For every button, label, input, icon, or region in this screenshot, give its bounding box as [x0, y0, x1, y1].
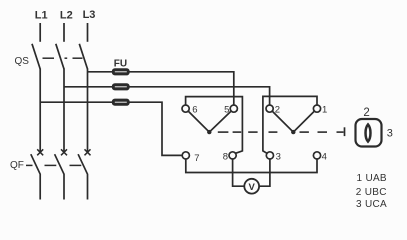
- svg-text:8: 8: [223, 151, 228, 162]
- terminal 7: [182, 152, 189, 159]
- breaker QF pole 2 contact cross: [61, 149, 67, 155]
- selector contact arm left (6-5): [189, 112, 231, 133]
- svg-text:3 UCA: 3 UCA: [356, 199, 387, 210]
- switch QS mechanical link dash 3: [73, 57, 83, 59]
- svg-text:5: 5: [224, 104, 229, 115]
- wire pole 2 vertical: [63, 69, 65, 153]
- wire 8 to voltmeter: [233, 159, 245, 186]
- mechanical link dashed line dash 2: [233, 131, 242, 133]
- terminal 2: [266, 105, 273, 112]
- wire fuse line 2 (from L2): [64, 87, 270, 105]
- svg-text:6: 6: [192, 104, 197, 115]
- switch QS pole 1 blade: [32, 44, 40, 69]
- wire 3 to voltmeter: [260, 159, 270, 186]
- breaker QF link dash 1: [26, 164, 33, 166]
- selector contact arm right (2-1): [273, 112, 314, 133]
- svg-text:3: 3: [387, 128, 393, 140]
- svg-text:L1: L1: [35, 10, 48, 22]
- terminal 8: [229, 152, 236, 159]
- svg-text:L3: L3: [83, 9, 96, 21]
- svg-text:QS: QS: [15, 56, 30, 67]
- wire 7 to 4 (bottom rail): [186, 159, 317, 172]
- terminal 5: [230, 105, 237, 112]
- breaker QF link dash 3: [70, 164, 82, 166]
- wire pole 3 vertical: [87, 69, 89, 153]
- breaker QF pole 2 blade: [55, 154, 64, 199]
- svg-text:1: 1: [322, 104, 327, 115]
- selector knob box: [356, 119, 382, 147]
- wire fuse line 3 (from L1): [40, 102, 182, 155]
- breaker QF pole 3 blade: [78, 154, 87, 199]
- breaker QF pole 3 contact cross: [85, 149, 91, 155]
- mechanical link dashed line dash 6: [318, 131, 328, 133]
- voltmeter V: [244, 179, 259, 194]
- svg-text:2 UBC: 2 UBC: [356, 187, 387, 198]
- wire bridge 3 to 1 (via top rail): [263, 96, 317, 153]
- breaker QF pole 1 blade: [31, 154, 40, 199]
- wire L1 top stub: [39, 23, 41, 42]
- svg-text:3: 3: [276, 151, 281, 162]
- svg-text:1 UAB: 1 UAB: [357, 173, 387, 184]
- switch QS mechanical link dash 2: [65, 57, 68, 59]
- breaker QF link dash 2: [45, 164, 57, 166]
- wire bridge 6 to 8 (via top rail): [186, 97, 243, 154]
- wire pole 1 vertical: [39, 69, 41, 153]
- svg-text:L2: L2: [60, 10, 73, 22]
- mechanical link end tick: [344, 127, 346, 136]
- terminal 3: [266, 152, 273, 159]
- svg-text:V: V: [249, 182, 256, 193]
- selector pivot dot left: [207, 130, 211, 134]
- selector pivot dot right: [291, 130, 295, 134]
- terminal 4: [313, 152, 320, 159]
- breaker QF pole 1 contact cross: [37, 149, 43, 155]
- fuse FU3: [113, 99, 130, 105]
- mechanical link dashed line dash 7: [337, 131, 344, 133]
- svg-text:QF: QF: [10, 160, 24, 171]
- mechanical link dashed line dash 3: [248, 131, 257, 133]
- switch QS pole 3 blade: [79, 44, 87, 69]
- wire fuse line 1 (from L3): [88, 72, 234, 105]
- svg-text:4: 4: [322, 151, 327, 162]
- terminal 1: [313, 105, 320, 112]
- mechanical link dashed line dash 5: [300, 131, 309, 133]
- switch QS mechanical link dash 1: [43, 57, 55, 59]
- svg-text:7: 7: [194, 153, 199, 164]
- fuse FU2: [113, 84, 130, 90]
- wire L3 top stub: [87, 23, 89, 42]
- selector knob handle: [366, 124, 371, 141]
- wire L2 top stub: [63, 23, 65, 42]
- svg-text:2: 2: [363, 107, 369, 119]
- mechanical link dashed line dash 4: [269, 131, 278, 133]
- svg-text:FU: FU: [114, 58, 127, 69]
- terminal 6: [182, 105, 189, 112]
- svg-text:2: 2: [275, 104, 280, 115]
- mechanical link dashed line dash 1: [218, 131, 229, 133]
- switch QS pole 2 blade: [56, 44, 64, 69]
- fuse FU1: [113, 69, 130, 75]
